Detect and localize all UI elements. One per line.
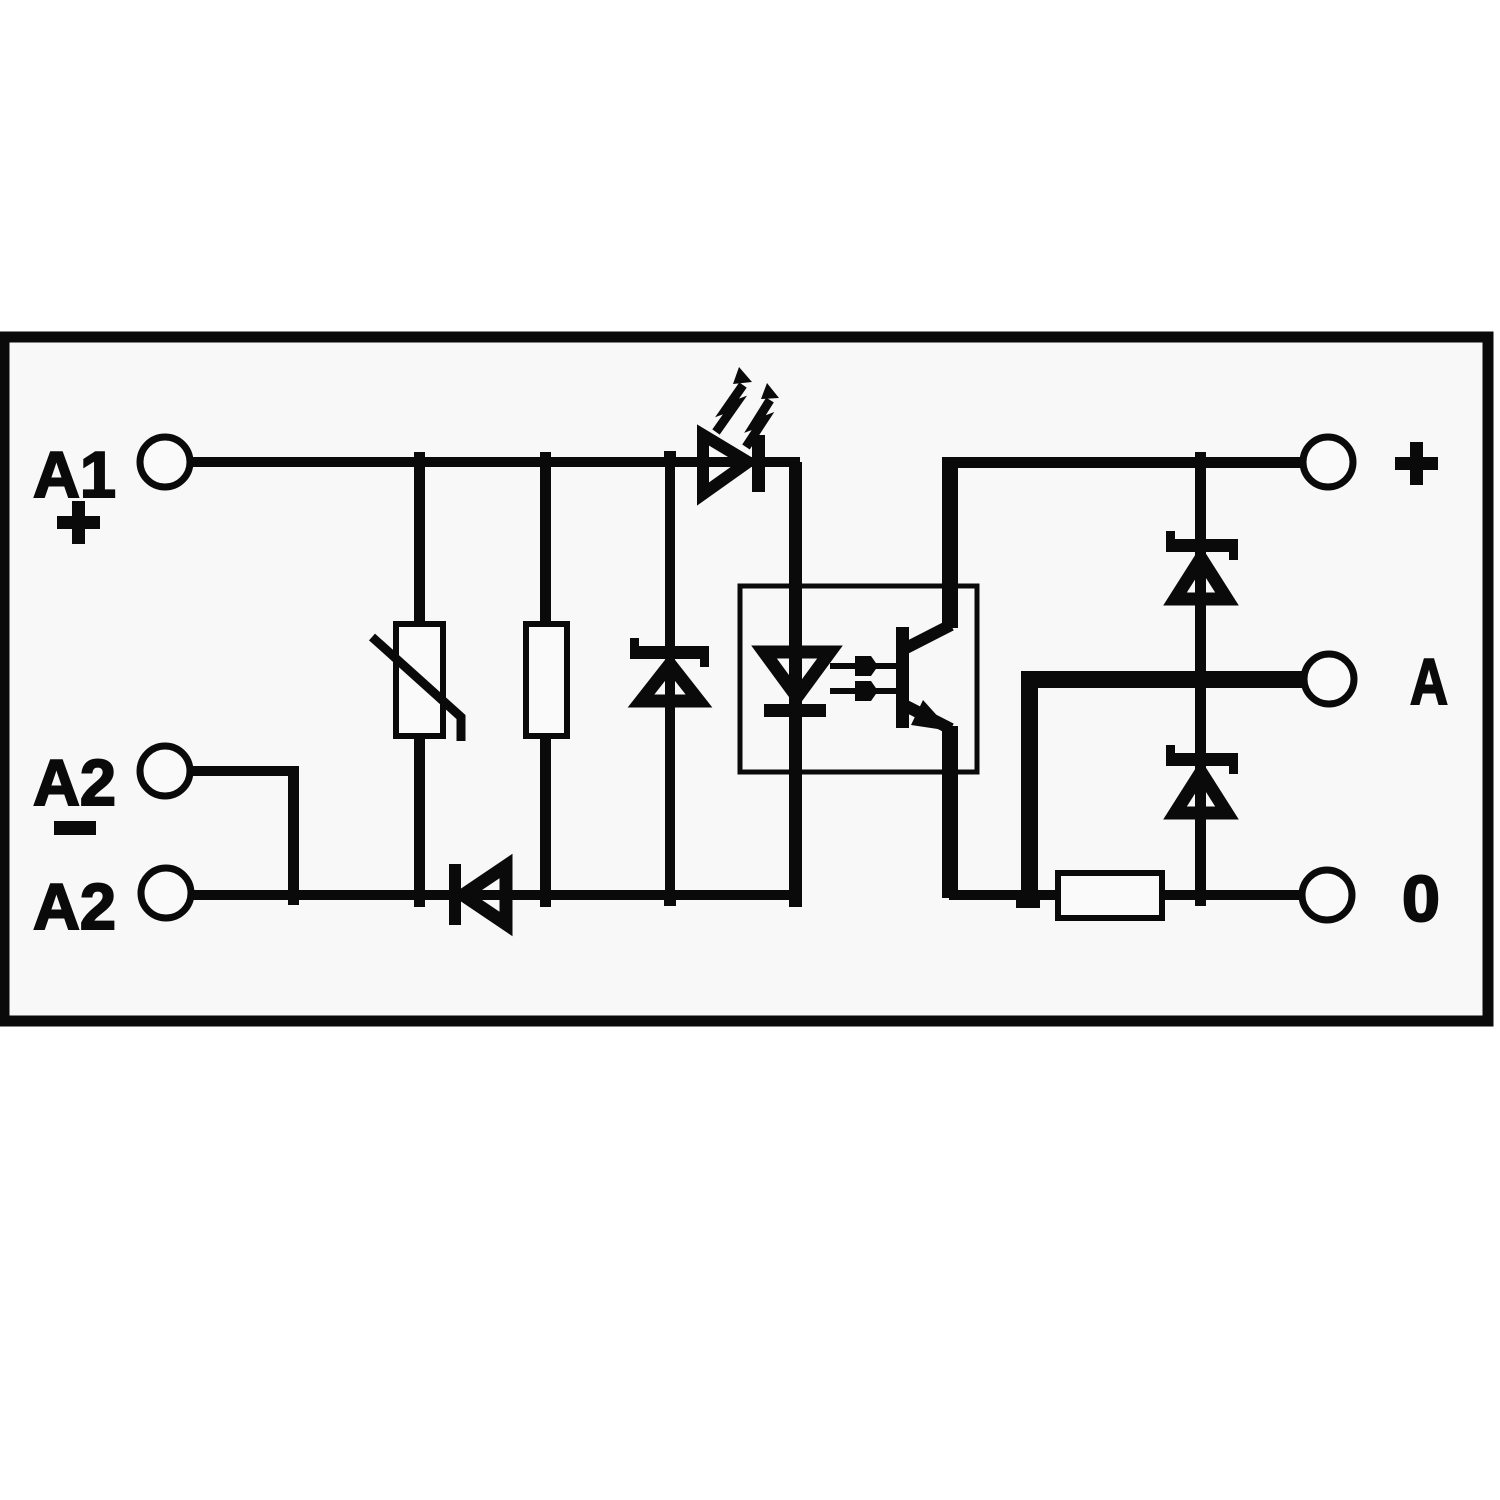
junction bottom at varistor (414, 890, 425, 907)
svg-text:A: A (1410, 645, 1448, 718)
junction top at zener (664, 451, 676, 467)
svg-text:A2: A2 (33, 746, 116, 819)
diode D4 (between + and A) (1166, 531, 1238, 599)
resistor R2 (output, horizontal) (1058, 873, 1162, 918)
label A (1410, 645, 1448, 718)
zener diode D2 (630, 638, 709, 701)
terminal 0 (1302, 870, 1352, 920)
opto light arrow upper (830, 656, 896, 676)
junction top at resistor (540, 452, 551, 467)
terminal A2 (140, 746, 190, 796)
diode D5 (between A and 0) (1166, 745, 1238, 813)
opto light arrow lower (830, 681, 896, 701)
varistor RV1 (372, 624, 461, 741)
label 0 (1402, 862, 1440, 935)
junction bottom at A2 elbow (288, 890, 299, 905)
wire emitter vertical to 0 rail (942, 726, 958, 898)
terminal A2 bottom (141, 868, 191, 918)
wire A1 top rail (190, 457, 800, 467)
LED light emission arrows (716, 367, 779, 447)
phototransistor base bar (896, 627, 909, 728)
wire A vertical (thick) (1021, 671, 1038, 900)
wire collector vertical to + rail (942, 462, 958, 628)
zener diode D2 vertical wire (665, 462, 675, 895)
svg-text:A2: A2 (33, 870, 116, 943)
wire output diode chain vertical (1195, 462, 1206, 895)
terminal A (1304, 654, 1354, 704)
terminal A1 (140, 437, 190, 487)
diode D1 (bottom rail, pointing left) (449, 864, 506, 925)
wire opto LED input vertical (789, 462, 802, 895)
label A1 (33, 438, 116, 511)
svg-text:A1: A1 (33, 438, 116, 511)
resistor R1 vertical wire (540, 462, 551, 895)
phototransistor emitter with arrow (906, 700, 951, 731)
label A2 (33, 746, 116, 819)
junction top at varistor (414, 452, 425, 467)
varistor RV1 vertical wire (414, 462, 425, 895)
wire A rail (thick) (1021, 671, 1303, 688)
label + (output) (1395, 442, 1438, 485)
resistor R1 (526, 624, 567, 736)
wire output + rail (942, 457, 1304, 468)
label + (A1 polarity) (57, 501, 100, 544)
junction bottom at opto input (789, 890, 802, 907)
terminal + (1303, 437, 1353, 487)
LED D3 (top rail) (703, 435, 765, 494)
label minus (A2 polarity) (54, 821, 96, 835)
junction top at output diode chain (1195, 452, 1206, 467)
wire bottom input rail (191, 890, 801, 900)
junction bottom at A vertical (1016, 892, 1040, 908)
wire output 0 rail (949, 890, 1304, 900)
label A2 bottom (33, 870, 116, 943)
junction bottom at resistor (540, 890, 551, 907)
wire A2 elbow (190, 766, 299, 899)
junction bottom at zener (664, 890, 676, 906)
opto LED (inside box, pointing down) (764, 652, 830, 717)
svg-text:0: 0 (1402, 862, 1440, 935)
optocoupler box (740, 586, 977, 772)
junction bottom at diode chain (1195, 890, 1206, 906)
phototransistor collector (906, 625, 951, 648)
